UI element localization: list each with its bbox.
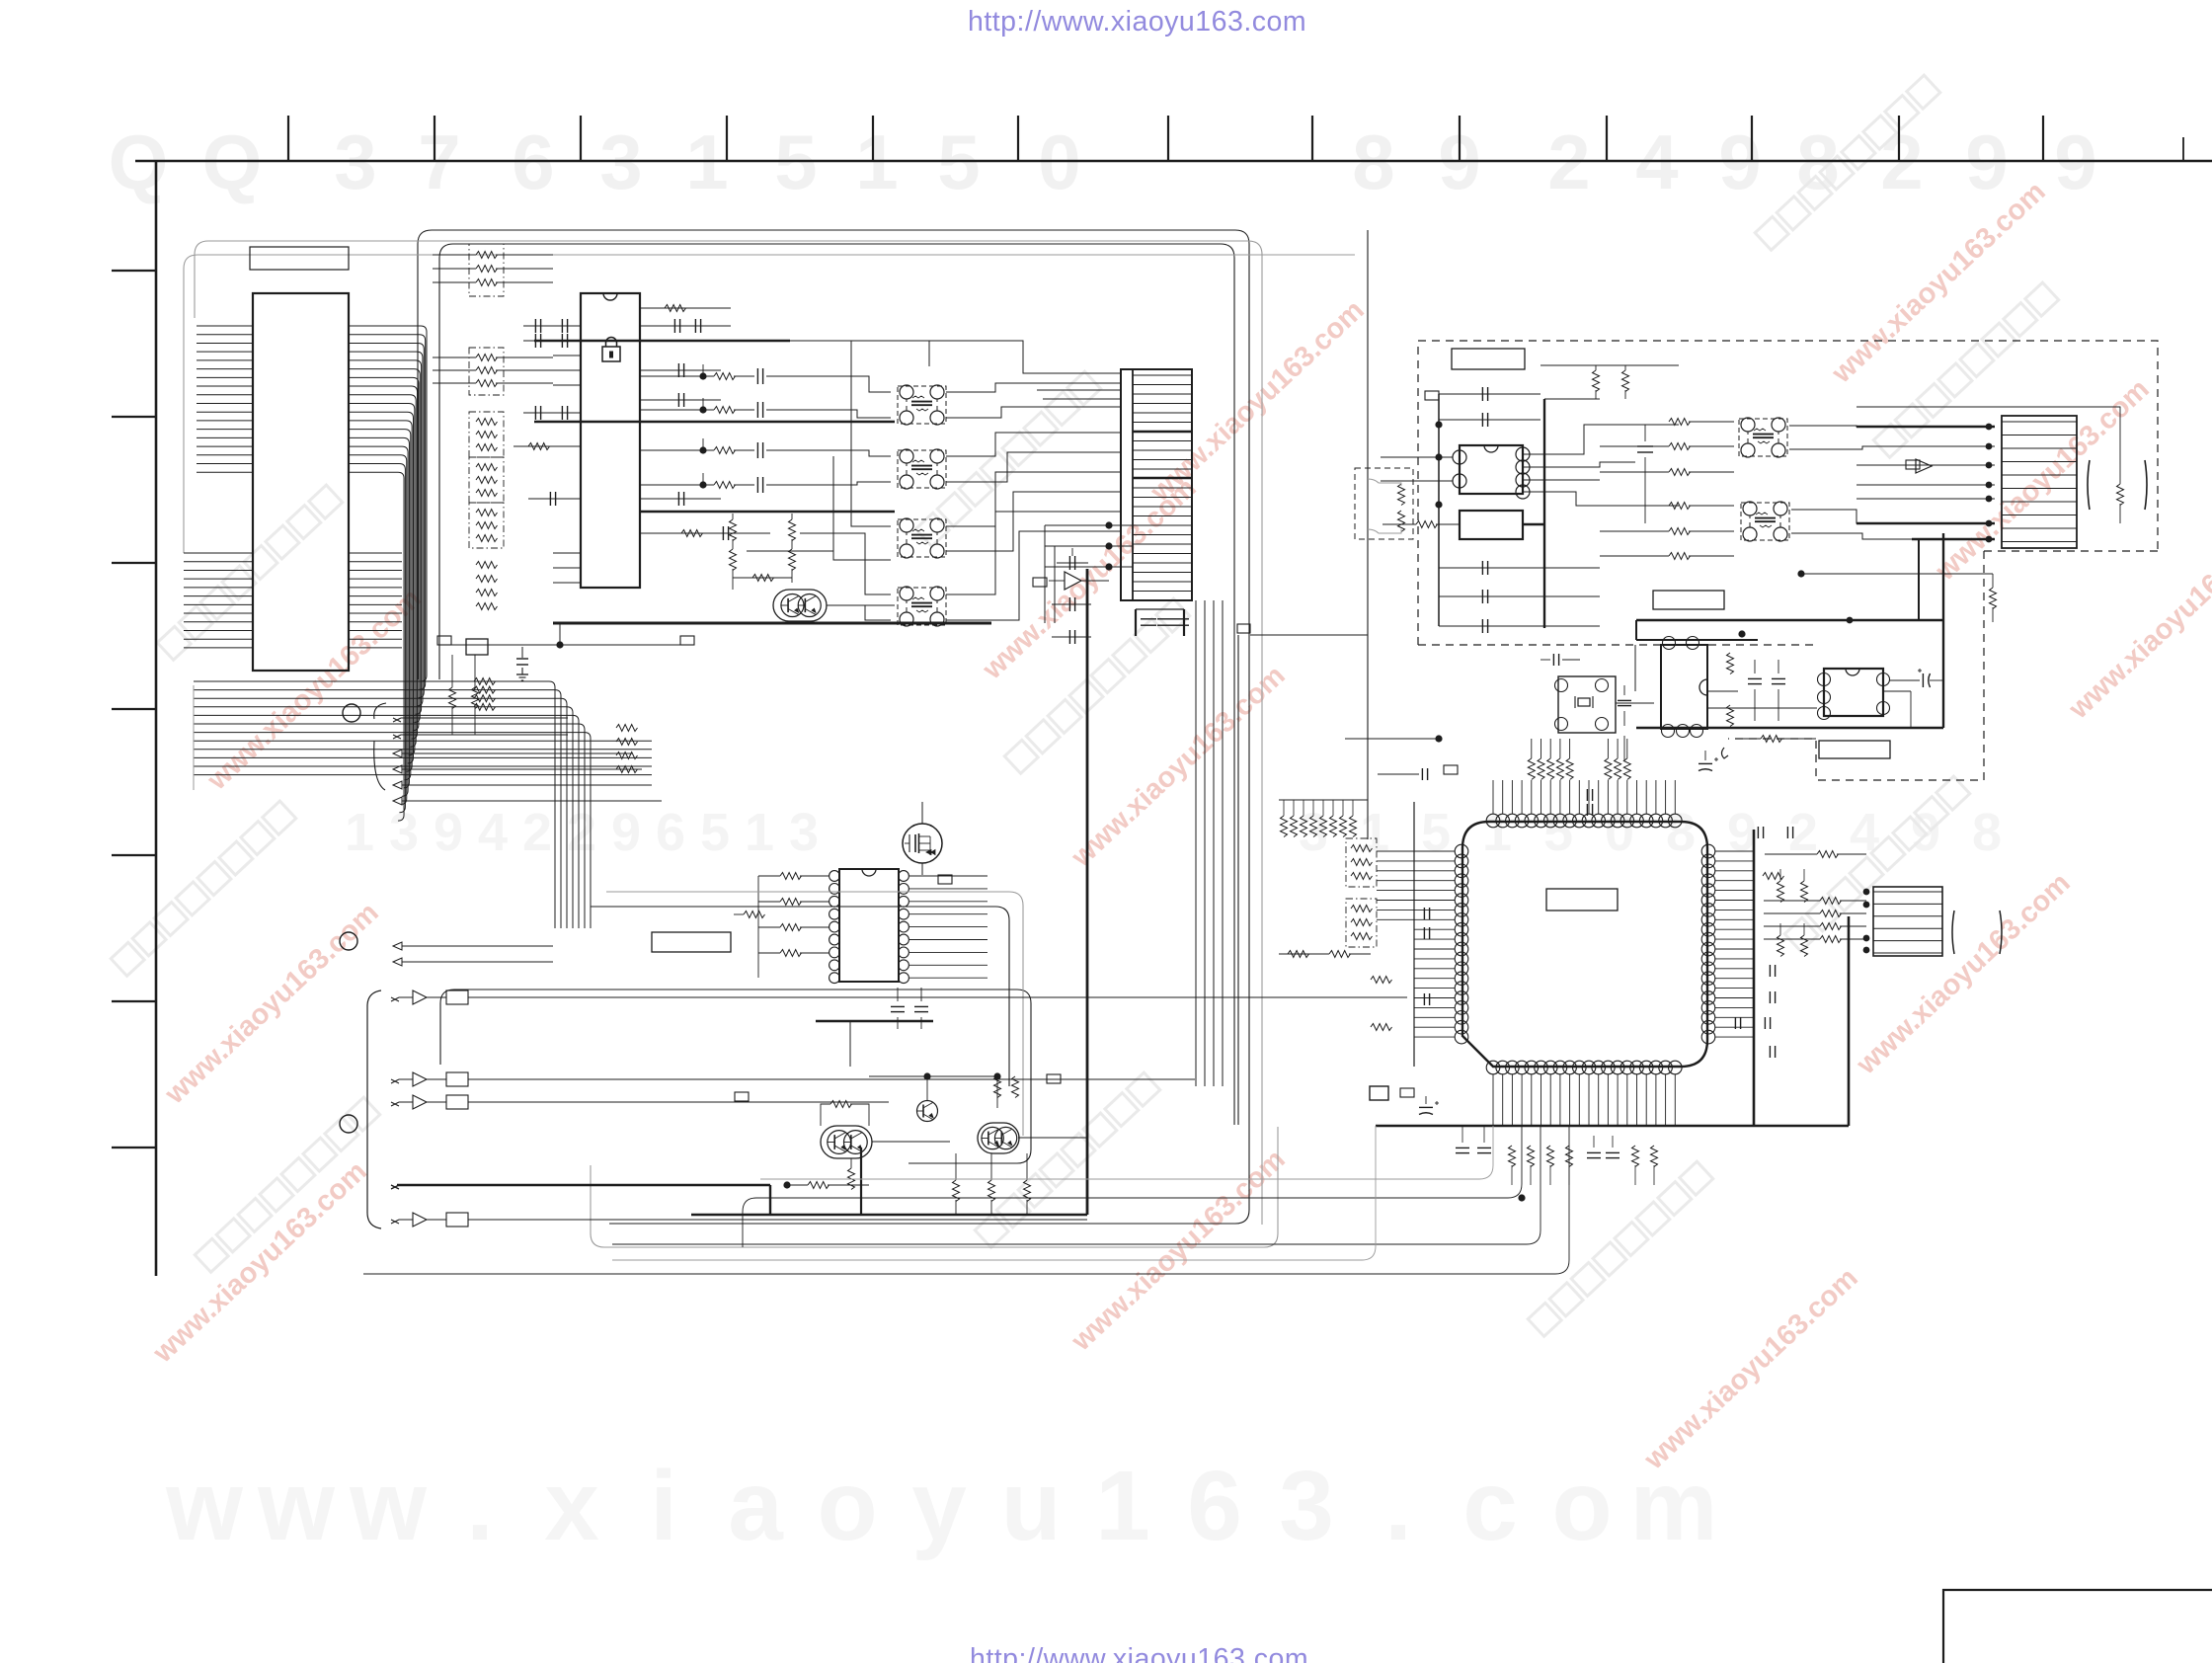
svg-text:2: 2: [522, 803, 552, 862]
resistor above Q6: [830, 1101, 851, 1108]
wire arrows upper group circle: [343, 704, 360, 722]
vertical wires ladder to lower zone: [1195, 600, 1197, 1086]
transistor dual package Q8: [978, 1123, 1019, 1153]
label box above E3: [1653, 591, 1724, 609]
wires into optos left: [820, 376, 891, 392]
polarized cap below qfp left: [1419, 1106, 1433, 1108]
resistor network RA1 dash-dot box: [469, 244, 504, 296]
connector CN3 pins: [1873, 891, 1942, 893]
wires around bottom transistors: [872, 1141, 950, 1143]
wire bottom gray return: [612, 1126, 1376, 1260]
wires across dashed zone: [1540, 393, 2158, 395]
svg-text:http://www.xiaoyu163.com: http://www.xiaoyu163.com: [970, 1643, 1308, 1663]
svg-text:1: 1: [745, 803, 774, 862]
caps right of qfp mid: [1769, 965, 1771, 977]
qfp U3 body: [1462, 822, 1707, 1067]
wire fan right of CN1 lower: [349, 552, 402, 554]
capacitor group right of U1: [673, 319, 675, 333]
resistor pair top D1: [1593, 370, 1600, 391]
wire gray link D3: [1797, 570, 1804, 577]
resistor pair lower: [616, 725, 637, 732]
connector CN4 input dots: [1105, 521, 1112, 528]
svg-text:1: 1: [1360, 803, 1389, 862]
ic E2 body filter: [1460, 511, 1523, 539]
svg-text:y: y: [911, 1451, 967, 1561]
rounded loop RRD bottom long: [591, 1127, 1278, 1247]
wire bundle below CN1 to right: [194, 680, 533, 682]
svg-text:9: 9: [1727, 803, 1757, 862]
dash-dot network left of qfp B: [1346, 899, 1377, 947]
resistors in D2: [1398, 484, 1405, 505]
resistor pairs right of qfp: [1777, 881, 1784, 902]
polarized cap right of E4: [1922, 673, 1924, 687]
opto package O2: [898, 450, 946, 488]
wire bundle right nested corners: [533, 681, 555, 928]
watermark url text bottom-large: [165, 1451, 1717, 1561]
wire bold bus U1-C: [640, 511, 895, 513]
watermark digits top row: [109, 119, 2097, 205]
gray vertical trunk pair: [1237, 635, 1239, 1125]
qfp U3 pins left: [1455, 844, 1468, 858]
arrow buffered row 1: [391, 997, 399, 1001]
wire long loop bus gray inner: [184, 255, 1355, 553]
ic E1 pins: [1453, 450, 1466, 464]
svg-text:w: w: [349, 1451, 427, 1561]
resistors below qfp: [1509, 1146, 1516, 1167]
bracket lower group: [367, 990, 381, 1228]
connector CN4 divider: [1132, 369, 1134, 600]
svg-text:8: 8: [1666, 803, 1696, 862]
junction dots right-mid: [1738, 630, 1745, 637]
wires inside right-mid: [1634, 645, 1636, 691]
resistor pair stack right: [994, 1076, 1001, 1098]
arrow buffered row 3: [391, 1102, 399, 1106]
arrow bold row 4: [391, 1185, 399, 1189]
opto package O4: [898, 588, 946, 625]
resistor network RA5 dash-dot box: [469, 503, 504, 548]
ground symbol right: [1722, 748, 1729, 758]
resistor network RA1 wires: [433, 254, 476, 256]
svg-text:9: 9: [434, 803, 463, 862]
svg-text:w: w: [165, 1451, 243, 1561]
ic E3 pins top: [1663, 637, 1676, 650]
svg-text:6: 6: [656, 803, 685, 862]
junction dot below qfp: [1518, 1194, 1525, 1201]
svg-text:.: .: [466, 1451, 494, 1561]
svg-text:9: 9: [611, 803, 641, 862]
ruler top line: [135, 160, 2212, 163]
transistor dual package Q1: [773, 590, 827, 621]
small rect below-left of qfp: [1370, 1086, 1388, 1100]
wire vertical trunk dark: [1367, 230, 1369, 839]
label box below E4: [1819, 741, 1890, 758]
svg-text:i: i: [650, 1451, 677, 1561]
ruler tick marks: [287, 116, 289, 161]
ic E4 body: [1824, 669, 1883, 716]
ic U2 bottom caps: [891, 1005, 905, 1007]
transistor dual package Q6: [821, 1126, 872, 1158]
capacitor group left of U1 lower: [534, 406, 536, 420]
svg-text:8: 8: [1972, 803, 2002, 862]
wire long loop bus second: [439, 244, 1234, 1125]
bold vertical bus D1: [1543, 399, 1545, 628]
connector CN2 body: [2002, 416, 2077, 548]
opamp triangle: [1065, 572, 1081, 590]
caps right of E3: [1727, 653, 1734, 673]
resistor-capacitor row to optos: [699, 372, 706, 379]
resistors to optos D1: [1669, 419, 1691, 426]
opto package O3: [898, 519, 946, 557]
qfp U3 label box: [1546, 889, 1618, 911]
arrow in group: [393, 750, 632, 757]
gray vertical trunk pair b: [1246, 230, 1248, 1224]
svg-text:4: 4: [1850, 803, 1879, 862]
rounded loop RRB: [606, 892, 1023, 1136]
wires optos to CN2: [1789, 426, 1995, 427]
opto package O6: [1741, 503, 1789, 540]
caps below qfp: [1587, 1151, 1601, 1153]
ic E3 body: [1661, 645, 1707, 729]
wire arrows lower circle A: [340, 932, 357, 950]
svg-text:.: .: [1384, 1451, 1412, 1561]
bold horizontal stub D1: [1523, 523, 1544, 525]
vertical bus at E1: [1438, 394, 1440, 626]
ground below CN1: [521, 647, 523, 658]
wire bold vertical main: [1086, 569, 1089, 1215]
wire bold bus main horizontal: [553, 622, 991, 625]
svg-text:1: 1: [345, 803, 374, 862]
wire bundle lower-left curls: [193, 685, 195, 790]
dash-dot network left of qfp A: [1346, 838, 1377, 887]
resistor column loose: [476, 562, 497, 569]
opto package O5: [1739, 419, 1787, 456]
svg-text:o: o: [1551, 1451, 1612, 1561]
svg-text:http://www.xiaoyu163.com: http://www.xiaoyu163.com: [968, 6, 1306, 38]
caps below-left of qfp: [1456, 1147, 1469, 1148]
svg-text:3: 3: [789, 803, 819, 862]
crystal symbol: [1578, 698, 1590, 706]
bold bus box right-mid: [1636, 619, 1943, 622]
wires optos to ladder connector: [946, 383, 1121, 392]
tiny box row below CN1: [437, 636, 451, 645]
arrow out B: [393, 735, 568, 739]
watermark digits middle row: [345, 803, 2002, 862]
svg-text:c: c: [1462, 1451, 1518, 1561]
connector CN2 dots: [1986, 424, 1993, 431]
junction dot below CN1: [556, 641, 563, 648]
svg-text:2: 2: [567, 803, 596, 862]
transistor pair resistors: [730, 519, 737, 540]
wire bold bus U1-A: [534, 340, 790, 342]
resistor network RA4 dash-dot box: [469, 457, 504, 503]
svg-text:5: 5: [1421, 803, 1451, 862]
label box row far: [1047, 1074, 1061, 1083]
svg-text:u: u: [1000, 1451, 1061, 1561]
bold wires to CN2: [1856, 426, 1995, 428]
connector CN1 label box: [250, 247, 349, 270]
svg-text:5: 5: [700, 803, 730, 862]
ic E3 pins bottom: [1662, 725, 1675, 738]
resistor right edge D1: [2117, 484, 2124, 505]
left frame ticks: [112, 270, 156, 272]
svg-text:m: m: [1630, 1451, 1718, 1561]
qfp U3 pins top: [1486, 814, 1500, 828]
wire bold L below U2: [816, 1020, 933, 1022]
resistors below CN1: [449, 687, 456, 708]
opto package O1: [898, 386, 946, 424]
connector CN4 bold pins: [1133, 431, 1192, 434]
ic U2 body: [839, 869, 899, 982]
left frame line: [155, 161, 158, 1276]
transistor Q7: [917, 1101, 938, 1122]
qfp U3 pins bottom: [1486, 1061, 1500, 1074]
wire long loop bus top: [418, 230, 1249, 1224]
capacitor group left of U1: [534, 319, 536, 333]
resistor column on bundle: [474, 678, 495, 685]
wire arrows lower circle B: [340, 1115, 357, 1133]
connector CN1 body: [253, 293, 349, 671]
capacitor trio bold block: [1135, 609, 1137, 636]
label box near mosfet: [938, 875, 952, 884]
cap near crystal: [1552, 654, 1554, 666]
cap mid D1: [1637, 445, 1653, 447]
resistor left of U1: [528, 443, 549, 450]
connector CN2 brackets: [2088, 460, 2090, 510]
svg-text:5: 5: [1543, 803, 1573, 862]
dashed box D2: [1355, 468, 1413, 539]
connector CN4 pins: [1133, 374, 1192, 376]
wire bold bus lower-left: [397, 1184, 770, 1186]
resistor network RA2 dash-dot box: [469, 348, 504, 395]
ic U2 pins right: [899, 871, 909, 882]
polarized cap below E3: [1698, 762, 1712, 764]
qfp left wires: [1377, 850, 1455, 852]
label box D1 small: [1425, 391, 1439, 400]
wires curving left below qfp: [760, 1126, 1493, 1179]
dashed boundary D1: [1418, 341, 2158, 645]
ic U1 body: [581, 293, 640, 588]
wire bold bus lower-mid: [691, 1214, 1087, 1217]
wire bold vertical Q6: [860, 1148, 862, 1215]
buffer triangle CN2: [1916, 459, 1932, 473]
wires upper entering ladder: [790, 341, 1121, 373]
vertical bus left of qfp: [1413, 802, 1415, 1067]
svg-text:1: 1: [1095, 1451, 1150, 1561]
rounded loop RRC: [591, 907, 1009, 1086]
rounded loop RRA: [440, 990, 1031, 1163]
ic U2 right wires: [909, 875, 987, 877]
svg-text:a: a: [728, 1451, 784, 1561]
qfp top stubs: [1492, 780, 1494, 814]
wire long loop bus gray outer: [195, 241, 1262, 1225]
stub wires left of U1: [553, 355, 581, 356]
wires E1 E2 left: [1381, 456, 1453, 458]
wire Q1 connections: [732, 569, 734, 590]
connector CN3 body: [1873, 887, 1942, 956]
resistors into CN3: [1820, 898, 1842, 905]
resistor network RA3 dash-dot box: [469, 412, 504, 457]
wire fan left of CN1 lower: [184, 552, 253, 554]
resistor clusters left of qfp: [1281, 816, 1288, 836]
svg-text:o: o: [817, 1451, 877, 1561]
capacitor pair below opamp: [1068, 597, 1070, 611]
connector CN3 dots: [1863, 889, 1870, 896]
connector CN4 ladder body: [1121, 369, 1192, 600]
resistor network RA2 wires: [433, 356, 476, 358]
svg-text:x: x: [544, 1451, 599, 1561]
ic E4 pins: [1818, 673, 1831, 686]
caps on left bus of qfp: [1423, 908, 1425, 919]
connector CN2 pins: [2002, 421, 2077, 423]
label box D1: [1452, 349, 1525, 369]
crystal oscillator X1 box: [1558, 676, 1616, 733]
resistors left of qfp lower: [1371, 977, 1392, 984]
ic U1 lock icon: [602, 347, 620, 361]
arrows lower in pair: [393, 942, 553, 950]
arrow out A: [393, 718, 568, 722]
wires below qfp: [1492, 1074, 1494, 1126]
ic E3 notch: [1699, 679, 1707, 695]
bold horizontal qfp bottom bus: [1376, 1125, 1849, 1128]
dashed boundary D3: [1728, 551, 2158, 780]
capacitor above opamp: [1068, 556, 1070, 570]
connector CN3 brackets: [1952, 911, 1954, 954]
label box mid-right: [1237, 624, 1250, 633]
crystal pins: [1555, 679, 1568, 692]
wire fan left of CN1 upper: [197, 325, 253, 327]
wire fan right of CN1 upper: [349, 326, 427, 681]
resistors below transistors: [953, 1180, 960, 1202]
svg-text:1: 1: [1482, 803, 1512, 862]
mosfet Q5: [903, 824, 942, 863]
caps top of D1: [1481, 387, 1483, 401]
wire bold bus U1-B: [534, 421, 895, 423]
qfp right wires: [1715, 850, 1754, 852]
label box near opamp: [1033, 578, 1047, 587]
qfp top resistors: [1528, 758, 1535, 779]
wire arrows upper group brace: [374, 703, 386, 790]
caps bottom of D1: [1481, 561, 1483, 575]
wires top-left of qfp: [1345, 738, 1439, 740]
arrow buffered row 5: [391, 1220, 399, 1224]
qfp top caps: [1586, 789, 1588, 801]
label box CN2: [1906, 460, 1920, 469]
svg-text:6: 6: [1187, 1451, 1242, 1561]
bold vertical right of qfp: [1753, 830, 1756, 1126]
wire bundle right continue: [533, 740, 652, 742]
bold vertical to CN3: [1848, 916, 1851, 1126]
wire bold bus lower-left drop: [769, 1185, 771, 1215]
svg-text:4: 4: [478, 803, 508, 862]
caps right of qfp top: [1757, 827, 1759, 838]
svg-text:w: w: [257, 1451, 335, 1561]
resistor on dashed lower: [1761, 736, 1782, 743]
qfp U3 pins right: [1701, 844, 1715, 858]
arrow buffered row 2: [391, 1079, 399, 1083]
svg-text:3: 3: [1279, 1451, 1334, 1561]
title block box corner: [1943, 1590, 2212, 1663]
ic E1 body: [1460, 445, 1523, 494]
ic U2 pins left: [829, 871, 840, 882]
label box left-mid: [652, 932, 731, 952]
ic U2 left wires and resistors: [780, 873, 801, 880]
svg-text:0: 0: [1605, 803, 1634, 862]
junction dot and resistor bottom-left: [783, 1181, 790, 1188]
